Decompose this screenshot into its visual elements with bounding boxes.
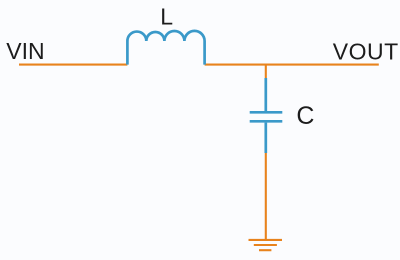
wire VIN to inductor <box>19 64 127 66</box>
wire inductor to VOUT <box>205 64 379 66</box>
wire to capacitor top plate (blue) <box>264 78 267 111</box>
svg-text:L: L <box>160 4 173 30</box>
ground symbol bar 1 <box>249 239 283 241</box>
capacitor C bottom plate <box>250 120 283 123</box>
capacitor C top plate <box>250 111 283 114</box>
ground symbol bar 2 <box>254 244 277 246</box>
wire capacitor to ground (orange) <box>265 153 267 240</box>
inductor L <box>127 31 204 65</box>
svg-text:VIN: VIN <box>6 38 44 64</box>
svg-text:C: C <box>296 102 314 130</box>
ground symbol bar 3 <box>259 249 271 251</box>
svg-text:VOUT: VOUT <box>333 38 399 64</box>
wire junction to capacitor (orange upper part) <box>265 64 267 78</box>
wire capacitor bottom plate down (blue) <box>264 123 267 153</box>
